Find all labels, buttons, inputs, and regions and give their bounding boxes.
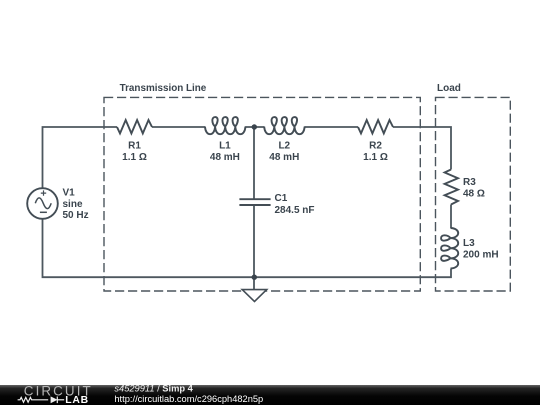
svg-text:48 mH: 48 mH [269, 152, 299, 163]
svg-text:sine: sine [63, 199, 83, 210]
svg-text:48 Ω: 48 Ω [463, 189, 485, 200]
svg-text:Load: Load [437, 83, 461, 94]
svg-text:LAB: LAB [65, 395, 89, 405]
svg-text:L2: L2 [278, 140, 290, 151]
svg-text:1.1 Ω: 1.1 Ω [363, 152, 388, 163]
svg-text:Transmission Line: Transmission Line [120, 83, 207, 94]
svg-text:R3: R3 [463, 177, 476, 188]
svg-text:http://circuitlab.com/c296cph4: http://circuitlab.com/c296cph482n5p [114, 394, 263, 404]
svg-text:284.5 nF: 284.5 nF [275, 205, 315, 216]
svg-text:R1: R1 [128, 140, 141, 151]
svg-text:50 Hz: 50 Hz [63, 210, 89, 221]
svg-text:200 mH: 200 mH [463, 250, 499, 261]
svg-text:L3: L3 [463, 238, 475, 249]
svg-text:1.1 Ω: 1.1 Ω [122, 152, 147, 163]
svg-text:L1: L1 [219, 140, 231, 151]
svg-text:C1: C1 [275, 193, 288, 204]
svg-text:R2: R2 [369, 140, 382, 151]
svg-text:V1: V1 [63, 187, 76, 198]
svg-text:48 mH: 48 mH [210, 152, 240, 163]
svg-text:s4529911 / Simp 4: s4529911 / Simp 4 [114, 385, 193, 393]
